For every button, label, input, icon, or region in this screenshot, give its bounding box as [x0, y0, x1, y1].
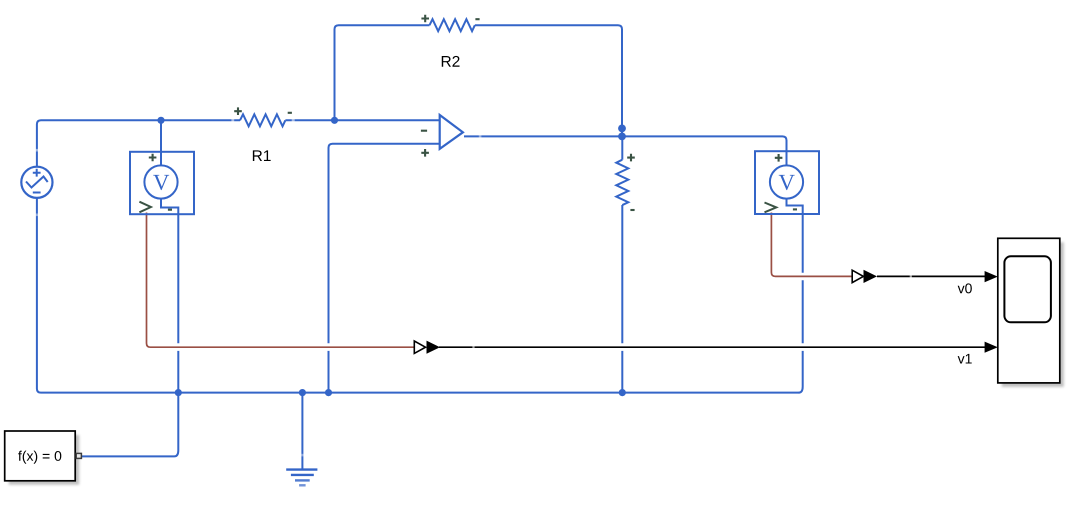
wire: sensor1 PS output (brown) to converter: [147, 213, 415, 348]
solver block f(x) = 0: [5, 431, 82, 485]
resistor R1: [240, 114, 285, 126]
wire: sensor1 plus tap: [160, 120, 162, 165]
node: op-amp non-inverting tap on bus: [325, 389, 332, 396]
label: R2 plus polarity: [421, 15, 429, 23]
voltage sensor 2: [755, 151, 819, 214]
label: R1: [253, 150, 271, 161]
label: R1 plus polarity: [234, 107, 242, 115]
label: R1 minus polarity: [288, 112, 292, 114]
node: output / load resistor junction: [618, 133, 626, 141]
node: load resistor tap on bus: [619, 389, 626, 396]
wire: op-amp non-inverting input to ground bus: [329, 144, 440, 393]
scope block: [998, 238, 1064, 387]
wire: load resistor bottom lead to ground bus: [621, 205, 623, 393]
PS-Simulink converter 2 (v1): [414, 341, 440, 354]
node: sensor1 tap on input net: [157, 117, 164, 124]
wire: R2 right side down to output node: [475, 25, 622, 136]
voltage sensor 1: [130, 152, 194, 214]
AC voltage source: [21, 167, 52, 198]
label: R2 minus polarity: [475, 18, 479, 20]
wire: R1 output to op-amp inverting input: [285, 119, 439, 121]
node: R2 feedback joins output: [618, 124, 626, 132]
node: sensor1 minus on ground bus: [175, 389, 182, 396]
wire: sensor2 PS output (brown) to converter: [771, 213, 852, 277]
label: Rload minus polarity: [630, 209, 634, 211]
wire: v1 signal line to scope: [439, 342, 998, 353]
ground: [286, 393, 317, 486]
PS-Simulink converter 1 (v0): [852, 270, 877, 283]
op-amp U1: [421, 115, 463, 157]
resistor R2: [430, 19, 475, 31]
wire: sensor1 minus to bus and solver block: [82, 199, 178, 457]
label: Rload plus polarity: [627, 154, 635, 162]
label: v0: [958, 283, 972, 293]
node: inverting input / R1-R2 junction: [331, 117, 338, 124]
wire connection tick marks: [37, 120, 912, 456]
wire: load resistor top lead: [621, 136, 623, 159]
label: v1: [958, 354, 972, 364]
node: ground symbol tap on bus: [299, 389, 306, 396]
wire: branch up from inverting node to R2 left: [335, 25, 430, 120]
label: R2: [442, 56, 460, 67]
wire: ground bus: [37, 198, 800, 393]
wire: v0 signal line to scope: [877, 271, 998, 282]
wire: sensor2 minus down to bus right corner: [787, 199, 803, 393]
resistor Rload vertical: [616, 160, 628, 205]
wire: op-amp output to sensor2 plus: [464, 136, 787, 165]
wire: source top net to R1: [37, 120, 240, 167]
